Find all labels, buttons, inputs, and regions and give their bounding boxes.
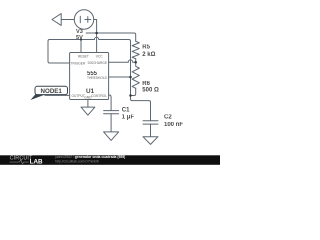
svg-text:5V: 5V — [76, 35, 83, 41]
svg-text:2 kΩ: 2 kΩ — [142, 52, 155, 58]
svg-text:V3: V3 — [76, 29, 83, 35]
svg-text:500 Ω: 500 Ω — [142, 87, 159, 93]
svg-text:VCC: VCC — [96, 54, 104, 58]
svg-text:http://circuitlab.com/c/7hmb9/: http://circuitlab.com/c/7hmb9/ — [55, 160, 99, 164]
svg-text:TRIGGER: TRIGGER — [71, 62, 86, 66]
svg-text:DISCHARGE: DISCHARGE — [88, 61, 108, 65]
svg-text:CONTROL: CONTROL — [91, 94, 107, 98]
svg-text:1 μF: 1 μF — [122, 115, 135, 121]
svg-text:THRESHOLD: THRESHOLD — [87, 76, 108, 80]
svg-text:OUTPUT: OUTPUT — [72, 94, 85, 98]
svg-text:juanro2562 / generador onda cu: juanro2562 / generador onda cuadrada (55… — [54, 155, 125, 159]
svg-text:100 nF: 100 nF — [164, 122, 183, 128]
svg-text:R6: R6 — [142, 81, 150, 87]
svg-text:NODE1: NODE1 — [41, 88, 63, 95]
svg-text:C1: C1 — [122, 107, 130, 113]
svg-text:LAB: LAB — [30, 159, 43, 165]
svg-text:C2: C2 — [164, 115, 172, 121]
svg-text:GND: GND — [84, 95, 92, 99]
svg-text:R5: R5 — [142, 45, 150, 51]
svg-text:RESET: RESET — [78, 54, 89, 58]
